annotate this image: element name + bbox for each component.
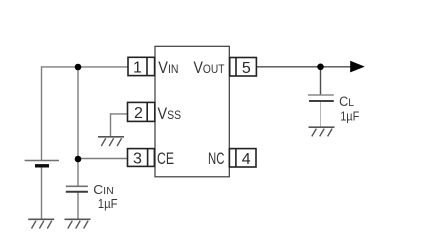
svg-text:VOUT: VOUT	[194, 59, 226, 77]
svg-text:1: 1	[133, 60, 142, 77]
svg-text:1µF: 1µF	[340, 109, 359, 124]
svg-text:VIN: VIN	[158, 59, 178, 77]
svg-text:3: 3	[133, 150, 142, 167]
svg-text:NC: NC	[208, 149, 224, 168]
svg-text:4: 4	[242, 151, 251, 168]
svg-text:CE: CE	[157, 149, 174, 168]
svg-text:5: 5	[242, 60, 251, 77]
svg-text:2: 2	[134, 105, 143, 122]
svg-text:CL: CL	[339, 94, 354, 109]
svg-text:1µF: 1µF	[98, 196, 118, 211]
svg-text:VSS: VSS	[158, 105, 182, 123]
